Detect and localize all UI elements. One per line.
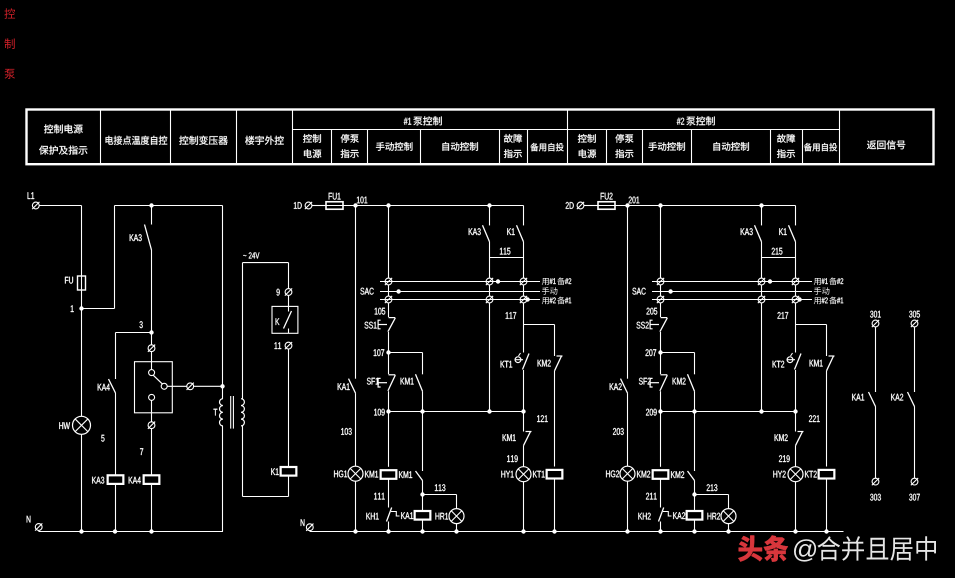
lamp HG2 (606, 470, 619, 477)
label switch position 用#1备#2 (814, 278, 821, 285)
watermark @合并且居中 (794, 539, 816, 561)
table: cell 备用自投 (804, 143, 837, 151)
wire K box to coil K1 (288, 349, 290, 467)
wire lamp branch (627, 206, 629, 379)
table: cell 自动控制 (443, 142, 478, 151)
table: header grid frame (27, 110, 934, 165)
wire (523, 370, 525, 412)
wire (694, 412, 696, 472)
wire (489, 285, 491, 296)
wire (388, 391, 390, 411)
table: cell 控制变压器 (179, 136, 227, 145)
wire (422, 519, 424, 531)
node 107 (646, 349, 657, 356)
coil KT2 (805, 471, 817, 478)
wire (728, 523, 730, 531)
junction on top rail (149, 203, 153, 207)
contact KM1 (810, 360, 823, 367)
wire (660, 285, 662, 296)
wire (523, 258, 525, 278)
wire (422, 391, 424, 411)
contact KM2 (671, 471, 684, 478)
lamp HY2 (773, 471, 785, 478)
fuse FU (65, 277, 73, 284)
wire N bus (309, 530, 311, 533)
temperature controller box (135, 362, 173, 413)
contact KM1 (401, 378, 414, 385)
wire (554, 478, 556, 532)
wire (388, 332, 390, 353)
wire (660, 412, 662, 467)
contact KM2 (775, 434, 788, 441)
wire (660, 353, 662, 375)
wire SAC column (660, 206, 662, 278)
wire (826, 478, 828, 532)
thermal contact KH1 (366, 513, 378, 520)
wire control rail (343, 205, 524, 207)
wire (795, 412, 797, 432)
contact KM1 (399, 471, 412, 478)
node 113 (420, 492, 424, 496)
pushbutton SF1 (367, 378, 379, 385)
wire (914, 407, 916, 479)
wire lamp to N (355, 481, 357, 532)
terminal on mid pin (187, 383, 194, 390)
table: cell 故障指示 (504, 134, 522, 143)
coil KM2 (637, 471, 650, 478)
wire (795, 325, 797, 353)
wire (795, 481, 797, 531)
wire auto column (761, 303, 763, 411)
terminal 301 (872, 320, 879, 327)
wire (456, 495, 458, 510)
node 113 (692, 492, 696, 496)
lamp HR1 (436, 513, 449, 520)
contact KA3 (741, 228, 753, 235)
wire lamp branch (355, 206, 357, 379)
wire (523, 481, 525, 531)
label 305 (909, 311, 920, 318)
coil K1 (271, 468, 278, 475)
terminal 307 (911, 478, 918, 485)
label switch position 用#2备#1 (814, 297, 821, 304)
lamp HY1 (501, 471, 513, 478)
wire (554, 325, 556, 357)
wire (388, 522, 390, 532)
temperature relay K box (272, 306, 298, 333)
table: cell 返回信号 (867, 140, 905, 149)
wire (489, 242, 491, 278)
node 3 (140, 321, 143, 328)
table: cell 停泵指示 (341, 134, 359, 143)
table: cell 停泵指示 (615, 134, 633, 143)
wire (660, 522, 662, 532)
wire (388, 285, 390, 296)
table: cell 手动控制 (649, 142, 685, 151)
wire lamp to N (627, 481, 629, 532)
table: cell 手动控制 (376, 142, 412, 151)
wire temp-relay mid pin (167, 385, 186, 387)
wire (523, 325, 525, 353)
table: cell 控制电源 (303, 134, 321, 143)
wire mid pin to transformer (194, 385, 223, 387)
contact KM2 (673, 378, 686, 385)
wire (523, 206, 525, 226)
terminal 1D (294, 202, 302, 209)
table: column lines (100, 110, 102, 165)
transformer T primary lead (222, 206, 224, 399)
wire (826, 371, 828, 467)
transformer T (214, 409, 218, 416)
wire (456, 523, 458, 531)
table: group divider line (293, 129, 840, 131)
terminal N (pump rails) (301, 519, 305, 526)
terminal 305 (911, 320, 918, 327)
wire (728, 495, 730, 510)
wire SAC column (388, 206, 390, 278)
wire (523, 285, 525, 296)
wire (914, 327, 916, 392)
contact KA1 (338, 383, 350, 390)
contact KM1 (503, 434, 516, 441)
label ~24V (243, 255, 246, 256)
node 109 (646, 409, 657, 416)
wire (422, 412, 424, 472)
wire (627, 393, 629, 466)
label switch position 用#2备#1 (542, 297, 549, 304)
terminal below temperature relay (148, 422, 155, 429)
wire 24V secondary top (242, 263, 244, 399)
delay contact KT1 (501, 361, 513, 368)
lamp HR2 (708, 513, 721, 520)
terminal 303 (872, 478, 879, 485)
table: cell 控制电源保护及指示 (44, 124, 83, 133)
wire to relay K box (288, 296, 290, 307)
wire 24V secondary bottom (288, 476, 290, 497)
table: cell 楼宇外控 (245, 136, 284, 145)
wire (795, 206, 797, 226)
terminal N (27, 516, 31, 523)
wire (660, 478, 662, 507)
wire auto column (489, 303, 491, 411)
contact KM2 (538, 360, 551, 367)
table: group header #2泵控制 (677, 118, 684, 125)
wire (694, 391, 696, 411)
wire (795, 258, 797, 278)
label switch position 手动 (542, 287, 558, 295)
contact KA3 (469, 228, 481, 235)
terminal L1 (28, 192, 35, 199)
coil KA2 (673, 512, 685, 519)
wire (761, 206, 763, 226)
wire KA3 to node 3 (151, 250, 153, 333)
coil KA1 (401, 512, 413, 519)
wire coil KA3 to N (115, 484, 117, 532)
wire coil KA4 to N (151, 484, 153, 532)
wire (795, 285, 797, 296)
fuse FU1 (329, 193, 341, 200)
contact KA2 (610, 383, 622, 390)
wire self-hold branch (422, 353, 424, 375)
wire (660, 391, 662, 411)
terminal 2D (566, 202, 574, 209)
wire (875, 407, 877, 479)
node 117 (795, 303, 797, 324)
wire top rail (115, 205, 223, 207)
fuse FU2 (601, 193, 613, 200)
coil KA3 (92, 477, 104, 484)
thermal contact KH2 (638, 513, 650, 520)
coil KM1 (365, 471, 378, 478)
delay contact KT2 (773, 361, 785, 368)
wire (388, 478, 390, 507)
node 7 (140, 448, 143, 455)
wire (388, 303, 390, 317)
wire L1 to fuse (39, 205, 81, 207)
wire (554, 371, 556, 467)
coil KT1 (533, 471, 545, 478)
selector switch SAC (632, 288, 645, 295)
node 115 (795, 242, 797, 258)
wire KA4-contact to coil (115, 393, 117, 475)
red marks top-left (4, 8, 15, 18)
label 307 (909, 494, 920, 501)
table: cell 控制电源 (578, 134, 596, 143)
node 117 (523, 303, 525, 324)
wire (694, 519, 696, 531)
wire (660, 332, 662, 353)
wire (795, 370, 797, 412)
selector switch SAC (360, 288, 373, 295)
node 5 (101, 435, 104, 442)
terminal 9 (277, 289, 280, 296)
wire node3 branch left (116, 332, 152, 334)
coil KA4 (129, 477, 141, 484)
wire (875, 327, 877, 392)
wire (523, 412, 525, 432)
contact KA1 (852, 394, 864, 401)
wire (489, 206, 491, 226)
label switch position 手动 (814, 287, 830, 295)
wire (523, 446, 525, 467)
wire (388, 412, 390, 467)
terminal above temperature relay (148, 345, 155, 352)
table: cell 自动控制 (714, 142, 749, 151)
contact KA4 (98, 384, 110, 391)
wire (761, 285, 763, 296)
wire (761, 242, 763, 278)
contact K1 (507, 228, 514, 235)
table: group header #1泵控制 (404, 118, 411, 125)
watermark 头条 (738, 535, 788, 561)
pushbutton SF2 (639, 378, 651, 385)
lamp HW (59, 422, 70, 429)
node 115 (523, 242, 525, 258)
wire control rail (615, 205, 796, 207)
pushbutton SS2 (637, 322, 649, 329)
contact K1 (779, 228, 786, 235)
table: cell 电接点温度自控 (106, 136, 168, 145)
wire self-hold branch (694, 353, 696, 375)
wire (660, 303, 662, 317)
contact KA2 (891, 394, 903, 401)
label 301 (870, 311, 881, 318)
label 303 (870, 494, 881, 501)
table: cell 故障指示 (777, 134, 795, 143)
table: sub-column lines (331, 130, 333, 165)
table: cell 备用自投 (530, 143, 563, 151)
terminal 11 (275, 342, 282, 349)
label switch position 用#1备#2 (542, 278, 549, 285)
wire (355, 393, 357, 466)
wire (388, 353, 390, 375)
wire (826, 325, 828, 357)
wire N bus (left) (38, 530, 40, 533)
wire (795, 446, 797, 467)
wire node1 up-link (82, 308, 115, 310)
lamp HG1 (334, 470, 347, 477)
contact KA3 (130, 234, 142, 241)
node 109 (374, 409, 385, 416)
node 107 (374, 349, 385, 356)
node 1 (71, 305, 74, 312)
pushbutton SS1 (365, 322, 377, 329)
